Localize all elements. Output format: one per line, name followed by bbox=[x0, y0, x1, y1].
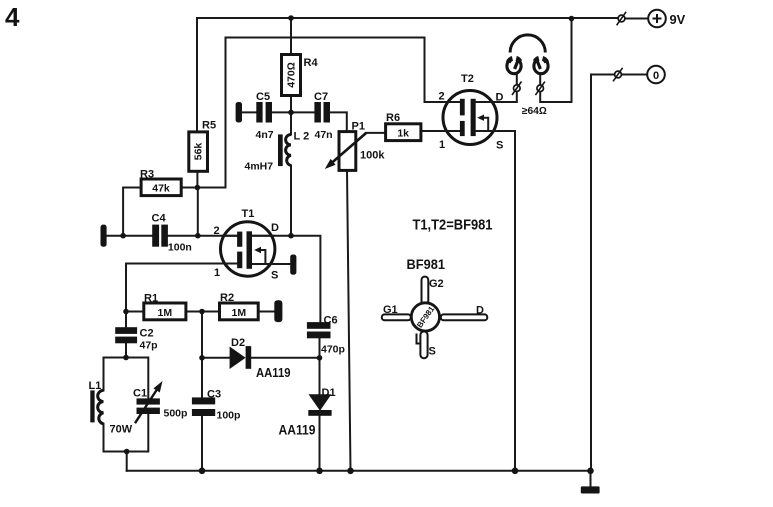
svg-text:R3: R3 bbox=[140, 169, 154, 181]
capacitor C7 47n bbox=[314, 91, 333, 141]
svg-text:L1: L1 bbox=[89, 380, 102, 392]
switch terminal 9V bbox=[617, 12, 627, 25]
BF981 pinout drawing bbox=[382, 257, 488, 358]
wire 0 terminal link bbox=[622, 74, 648, 76]
headphones >=64 ohm bbox=[507, 35, 548, 117]
diode D2 AA119 bbox=[230, 337, 291, 380]
resistor R6 1k bbox=[386, 112, 421, 141]
svg-text:100k: 100k bbox=[360, 150, 385, 162]
svg-text:500p: 500p bbox=[164, 408, 188, 420]
wire phones return to top rail bbox=[540, 18, 571, 102]
svg-text:R2: R2 bbox=[220, 292, 234, 304]
svg-text:C2: C2 bbox=[140, 328, 154, 340]
stub terminal right of T1 source bbox=[290, 255, 296, 275]
svg-text:4n7: 4n7 bbox=[256, 129, 274, 141]
stub terminal left of C5 bbox=[236, 102, 242, 123]
svg-text:47p: 47p bbox=[140, 340, 158, 352]
transistor T2 BF981 bbox=[439, 73, 504, 152]
wire T2 drain to phones bbox=[476, 92, 517, 102]
switch terminal 0 bbox=[613, 68, 623, 82]
svg-text:C4: C4 bbox=[152, 213, 167, 225]
svg-text:4: 4 bbox=[5, 2, 20, 32]
svg-text:≥64Ω: ≥64Ω bbox=[522, 106, 547, 117]
variable capacitor C1 500p bbox=[110, 381, 188, 436]
svg-text:R5: R5 bbox=[202, 120, 216, 132]
wire R1 R2 leads bbox=[126, 311, 274, 313]
svg-text:C5: C5 bbox=[256, 91, 270, 103]
wire P1 bottom lead bbox=[347, 170, 351, 470]
svg-text:D: D bbox=[271, 222, 279, 234]
wire T1 source stub lead bbox=[252, 263, 290, 265]
svg-text:47n: 47n bbox=[315, 129, 333, 141]
svg-text:470p: 470p bbox=[321, 344, 345, 356]
resistor R5 56k bbox=[189, 120, 216, 172]
svg-text:G2: G2 bbox=[429, 278, 444, 290]
capacitor C6 470p bbox=[307, 315, 345, 356]
battery terminal +9V bbox=[648, 10, 686, 28]
wire C6 bottom lead bbox=[319, 338, 321, 358]
stub terminal left of C4 bbox=[101, 225, 107, 247]
svg-text:C1: C1 bbox=[133, 388, 147, 400]
headphone terminal left bbox=[512, 82, 522, 96]
wire P1 wiper to R6 bbox=[366, 132, 385, 134]
svg-text:1: 1 bbox=[439, 139, 445, 151]
svg-text:T1,T2=BF981: T1,T2=BF981 bbox=[413, 218, 493, 234]
inductor L2 4mH7 bbox=[245, 131, 310, 173]
svg-text:AA119: AA119 bbox=[279, 423, 316, 438]
svg-text:1: 1 bbox=[214, 267, 220, 279]
potentiometer P1 100k bbox=[325, 121, 386, 171]
svg-text:70W: 70W bbox=[110, 424, 133, 436]
wire T1 gate1 riser bbox=[126, 264, 237, 358]
svg-text:R1: R1 bbox=[144, 293, 158, 305]
battery terminal 0 bbox=[647, 66, 665, 84]
wire R4 leads bbox=[290, 18, 292, 112]
capacitor C2 47p bbox=[115, 327, 157, 351]
inductor L1 bbox=[89, 380, 104, 424]
capacitor C4 100n bbox=[152, 213, 192, 254]
wire headphone cup leads bbox=[517, 74, 540, 85]
wire C4 row to T1 gate2 bbox=[107, 235, 238, 237]
transistor T1 BF981 bbox=[214, 208, 280, 282]
svg-text:D1: D1 bbox=[322, 387, 336, 399]
wire 0 rail bbox=[591, 75, 615, 471]
wire R3 left lead bbox=[123, 188, 141, 236]
svg-text:D2: D2 bbox=[231, 337, 245, 349]
svg-text:56k: 56k bbox=[193, 143, 205, 161]
svg-text:470Ω: 470Ω bbox=[286, 62, 298, 88]
svg-text:C6: C6 bbox=[324, 315, 338, 327]
svg-text:AA119: AA119 bbox=[256, 365, 291, 380]
diode D1 AA119 bbox=[279, 387, 336, 438]
svg-text:D: D bbox=[496, 92, 504, 104]
svg-text:D: D bbox=[476, 305, 484, 317]
wire D2 row bbox=[202, 357, 320, 359]
wire R6 to T2 pin1 bbox=[421, 130, 460, 132]
capacitor C5 4n7 bbox=[256, 91, 274, 141]
svg-text:4mH7: 4mH7 bbox=[245, 161, 274, 173]
wire top +9V rail bbox=[197, 18, 618, 132]
resistor R4 470ohm bbox=[282, 55, 319, 96]
svg-text:1M: 1M bbox=[158, 307, 173, 319]
svg-text:T1: T1 bbox=[242, 208, 255, 220]
svg-text:C7: C7 bbox=[314, 91, 328, 103]
svg-text:C3: C3 bbox=[207, 389, 221, 401]
svg-text:47k: 47k bbox=[152, 183, 170, 195]
wire C5 C7 row bbox=[242, 112, 347, 131]
ground bbox=[581, 471, 600, 494]
svg-text:100p: 100p bbox=[217, 410, 241, 422]
wire 9V terminal link bbox=[625, 18, 648, 20]
svg-text:100n: 100n bbox=[168, 242, 192, 254]
wire T2 source to rail bbox=[476, 131, 515, 471]
resistor R1 1M bbox=[144, 293, 186, 320]
resistor R2 1M bbox=[220, 292, 259, 320]
wire L2 leads bbox=[290, 112, 292, 235]
stub terminal right of R2 bbox=[274, 300, 282, 322]
wire D1 leads bbox=[319, 358, 321, 471]
wire gate2 riser to T1 bbox=[197, 188, 199, 236]
svg-text:2: 2 bbox=[439, 91, 445, 103]
svg-text:1k: 1k bbox=[397, 128, 409, 140]
wire R5 bottom lead bbox=[196, 171, 198, 187]
svg-text:BF981: BF981 bbox=[407, 257, 446, 272]
svg-text:T2: T2 bbox=[461, 73, 474, 85]
capacitor C3 100p bbox=[192, 389, 241, 422]
svg-text:G1: G1 bbox=[383, 304, 398, 316]
svg-text:S: S bbox=[429, 346, 436, 358]
svg-text:2: 2 bbox=[214, 225, 220, 237]
wire gate2 bias rail bbox=[181, 38, 444, 188]
svg-text:L 2: L 2 bbox=[294, 131, 310, 143]
wire tank loop L1 C1 bbox=[104, 358, 149, 471]
svg-text:1M: 1M bbox=[232, 307, 247, 319]
svg-text:R6: R6 bbox=[386, 112, 400, 124]
wire T1 drain to C6 bbox=[252, 236, 320, 322]
wire centre riser R1R2 to C3 bbox=[201, 312, 203, 471]
svg-text:S: S bbox=[496, 140, 503, 152]
wire bottom ground rail bbox=[127, 470, 591, 472]
svg-text:0: 0 bbox=[653, 70, 659, 82]
svg-text:R4: R4 bbox=[304, 57, 319, 69]
resistor R3 47k bbox=[140, 169, 181, 196]
svg-text:S: S bbox=[271, 270, 278, 282]
svg-text:P1: P1 bbox=[352, 121, 365, 133]
svg-text:9V: 9V bbox=[670, 13, 686, 27]
headphone terminal right bbox=[535, 82, 545, 96]
